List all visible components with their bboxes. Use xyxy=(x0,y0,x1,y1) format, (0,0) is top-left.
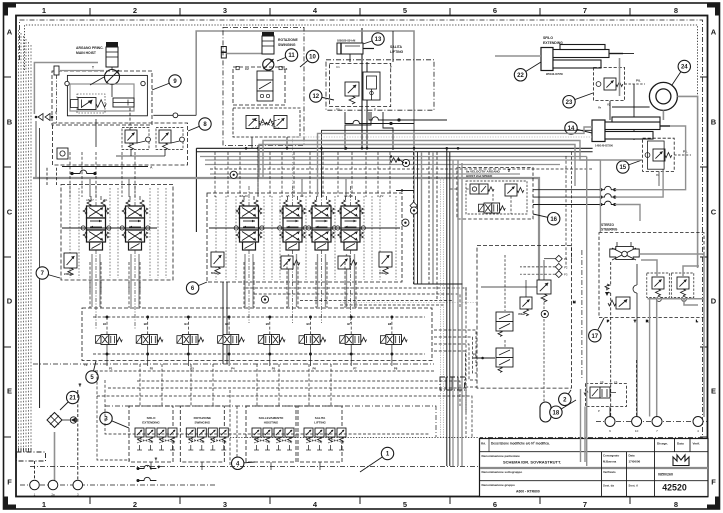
steering gray loops xyxy=(639,254,704,417)
lifting feed wires xyxy=(345,31,393,150)
bank 6 spool 1 xyxy=(234,196,264,250)
steering relief ports xyxy=(657,297,687,302)
svg-text:5: 5 xyxy=(403,6,407,15)
callout 11 xyxy=(277,49,298,61)
callout 24 xyxy=(672,60,691,85)
callout 16 xyxy=(533,213,560,225)
svg-text:P2: P2 xyxy=(564,265,568,269)
svg-text:A5: A5 xyxy=(286,194,290,198)
pilot row bottom bus xyxy=(93,345,425,367)
svg-text:14: 14 xyxy=(568,126,575,132)
box bottom collectors xyxy=(151,457,320,470)
P-port labels row xyxy=(84,363,398,371)
bank 6 aux valve 2 xyxy=(281,256,300,269)
column numbers bottom xyxy=(42,500,678,509)
return filter 21 xyxy=(47,413,62,428)
svg-text:HOIST 2nd SPEED: HOIST 2nd SPEED xyxy=(466,174,493,178)
lifting outlet hop line 1 xyxy=(345,112,414,125)
svg-text:B2: B2 xyxy=(144,322,148,326)
remote control box SOLLEVAMENTO xyxy=(246,406,296,462)
svg-text:SCHEMA IDR. SOVRASTRUTT.: SCHEMA IDR. SOVRASTRUTT. xyxy=(503,460,561,465)
svg-text:SWINGING: SWINGING xyxy=(278,43,296,47)
svg-text:SALITA: SALITA xyxy=(390,45,403,49)
bank 7 gray drops xyxy=(92,254,139,307)
unloader valve 18 boundary xyxy=(585,384,626,407)
return drops to tank manifold xyxy=(19,448,32,452)
svg-text:P3: P3 xyxy=(564,273,568,277)
callout 5 xyxy=(86,361,98,383)
corner trim mark top-right xyxy=(707,4,719,16)
pilot staircase bus 3 xyxy=(97,396,472,437)
svg-text:Verif.: Verif. xyxy=(693,442,701,446)
svg-text:22: 22 xyxy=(517,73,524,79)
bank 6 spool 4 xyxy=(336,196,366,250)
svg-text:18: 18 xyxy=(553,410,560,416)
steering relief left subframe xyxy=(647,273,670,298)
svg-text:C2: C2 xyxy=(245,67,249,71)
svg-text:B4: B4 xyxy=(225,322,229,326)
telescopic gray feed xyxy=(495,56,698,268)
lifting outlet hop line 2 xyxy=(369,112,447,121)
pilot return dashed bus xyxy=(95,370,434,372)
svg-text:P: P xyxy=(607,319,609,323)
svg-text:P4: P4 xyxy=(231,367,235,371)
svg-text:Sost. il: Sost. il xyxy=(629,484,638,488)
svg-text:P5: P5 xyxy=(272,367,276,371)
callout 1 xyxy=(360,447,394,472)
callout 13 xyxy=(363,33,384,45)
steering shock valve xyxy=(608,297,630,309)
svg-text:8: 8 xyxy=(674,500,678,509)
inter-box return drops xyxy=(230,390,237,466)
gray supply header top xyxy=(196,31,414,284)
port riser lines xyxy=(610,360,637,417)
svg-text:Rif.: Rif. xyxy=(481,442,486,446)
swing overcenter valve left xyxy=(246,116,266,129)
2nd speed solenoid valve xyxy=(479,203,506,213)
svg-text:A: A xyxy=(711,28,717,37)
title block texts xyxy=(481,442,700,494)
svg-text:45bar: 45bar xyxy=(518,312,525,316)
svg-text:2: 2 xyxy=(133,6,137,15)
svg-text:C: C xyxy=(711,208,717,217)
svg-text:B: B xyxy=(711,118,717,127)
svg-text:23: 23 xyxy=(566,100,573,106)
swing group outer boundary xyxy=(223,27,304,145)
pilot lines bus-to-banks xyxy=(70,152,390,197)
pilot solenoid valve 6 xyxy=(299,335,326,345)
swing group boundary xyxy=(233,67,285,105)
corner trim mark bottom-right xyxy=(707,497,719,509)
svg-text:17: 17 xyxy=(591,334,598,340)
telescopic cylinder 22 xyxy=(541,45,623,71)
manufacturer logo xyxy=(673,455,689,466)
luffing cylinder 14 xyxy=(592,117,670,142)
svg-text:42520: 42520 xyxy=(662,483,687,493)
steering ports lines xyxy=(607,262,698,418)
svg-text:V: V xyxy=(374,107,376,111)
svg-text:7: 7 xyxy=(583,500,587,509)
main pressure bus P (double line) xyxy=(196,148,592,232)
port gauge left xyxy=(65,81,69,85)
callout 23 xyxy=(563,93,593,108)
valve 23 drop line xyxy=(610,84,634,140)
svg-text:ROTAZIONE: ROTAZIONE xyxy=(194,416,211,420)
hose gray extensions xyxy=(615,126,686,221)
steering inlet check xyxy=(605,284,609,296)
svg-text:140/140-D7200: 140/140-D7200 xyxy=(595,144,613,148)
svg-text:P1: P1 xyxy=(564,257,568,261)
relief valve 8b subframe xyxy=(156,128,183,150)
B-port labels row xyxy=(103,322,392,326)
svg-text:T: T xyxy=(92,66,94,70)
column numbers top xyxy=(42,6,678,15)
steering label xyxy=(601,223,618,232)
group 2 internal wires xyxy=(481,255,576,402)
svg-text:Descrizione modifiche e/o N° m: Descrizione modifiche e/o N° modifica. xyxy=(491,442,550,446)
bank 7 spool 1 xyxy=(81,196,111,250)
svg-text:Denominazione sottogruppo: Denominazione sottogruppo xyxy=(482,470,523,474)
quick coupler qa xyxy=(402,159,409,166)
svg-text:B7: B7 xyxy=(347,322,351,326)
valve bank 7 boundary xyxy=(61,185,173,281)
hose hops left xyxy=(71,170,96,175)
gray drops into banks xyxy=(90,178,346,197)
svg-text:EXTENDING: EXTENDING xyxy=(142,421,160,425)
bank 7 internal verticals xyxy=(70,188,166,278)
bank 6 spool centrelines xyxy=(249,186,351,323)
svg-text:SOLLEVAMENTO: SOLLEVAMENTO xyxy=(259,416,284,420)
svg-text:Disegn.: Disegn. xyxy=(657,442,668,446)
svg-text:020/020-034+M: 020/020-034+M xyxy=(337,39,355,43)
svg-text:LS: LS xyxy=(614,380,618,384)
bank 6 spool 2 xyxy=(278,196,308,250)
callout 10 xyxy=(300,50,319,67)
inlet check pair xyxy=(35,111,57,121)
svg-text:A600 - RTR600: A600 - RTR600 xyxy=(516,490,540,494)
group 8 internal links xyxy=(116,141,180,156)
pressure switch spring xyxy=(390,158,404,163)
svg-text:230bar: 230bar xyxy=(64,272,72,276)
hose hops bottom xyxy=(137,465,157,481)
system boundary dash-dot rectangle xyxy=(20,20,703,438)
long pilot dashed bus bottom xyxy=(30,372,480,467)
hoist motor wires xyxy=(90,67,130,147)
callout 18 xyxy=(550,400,576,418)
svg-text:21: 21 xyxy=(69,396,76,402)
svg-text:B5: B5 xyxy=(266,322,270,326)
valve bank 6 boundary xyxy=(207,193,402,282)
gauge connection box xyxy=(57,148,68,159)
extension label xyxy=(543,36,563,45)
remote control box SFILO xyxy=(129,406,177,462)
swing brake cylinder xyxy=(262,32,274,54)
swing overcenter valve right xyxy=(267,116,287,129)
svg-text:P6: P6 xyxy=(313,367,317,371)
relief valve 8b xyxy=(159,130,171,150)
svg-text:E: E xyxy=(711,387,716,396)
trunk collector line xyxy=(414,284,466,437)
svg-text:Verificato: Verificato xyxy=(603,470,616,474)
svg-text:11: 11 xyxy=(288,53,295,59)
main hoist gray subplate xyxy=(70,84,134,111)
svg-text:3: 3 xyxy=(223,500,227,509)
steering group boundary xyxy=(599,233,704,318)
svg-text:D: D xyxy=(711,297,717,306)
svg-text:B: B xyxy=(7,118,13,127)
swing lines down xyxy=(252,137,287,196)
svg-text:F: F xyxy=(711,478,716,487)
svg-text:HOISTING: HOISTING xyxy=(264,421,279,425)
gray return continuation xyxy=(35,121,37,178)
bank 6 carryover line xyxy=(209,227,400,229)
box feed drops xyxy=(140,364,331,406)
pilot solenoid valve 7 xyxy=(340,335,367,345)
bank 7 bottom ports xyxy=(90,262,140,292)
svg-text:24: 24 xyxy=(681,65,688,71)
svg-text:3: 3 xyxy=(223,6,227,15)
pilot solenoid valve 1 xyxy=(96,335,123,345)
bus junction nodes xyxy=(245,147,460,161)
callout 9 xyxy=(152,75,181,90)
title block xyxy=(480,439,709,497)
svg-text:Denominazione gruppo: Denominazione gruppo xyxy=(482,483,516,487)
relief valve 8a xyxy=(125,130,137,150)
svg-text:B3: B3 xyxy=(184,322,188,326)
feeds from bank 6 to lower boxes xyxy=(223,282,227,364)
svg-text:C1: C1 xyxy=(336,107,340,111)
filter wires xyxy=(35,280,82,480)
svg-text:6: 6 xyxy=(493,500,497,509)
svg-text:T: T xyxy=(155,457,157,461)
luffing pilot dotted xyxy=(293,137,593,197)
swing motor label xyxy=(278,38,298,47)
main hoist manifold block xyxy=(67,75,147,115)
pilot row top bus xyxy=(93,316,425,334)
bank 6 gray drops xyxy=(245,254,355,307)
svg-text:B8: B8 xyxy=(388,322,392,326)
svg-text:ARGANO PRINC.: ARGANO PRINC. xyxy=(76,46,104,50)
P1-P3 riser dashes xyxy=(566,152,572,267)
quick coupler qd xyxy=(541,310,548,317)
swing overcenter boundary xyxy=(233,108,300,137)
svg-text:F: F xyxy=(7,478,12,487)
P2 link line xyxy=(396,189,414,191)
pilot solenoid valve 4 xyxy=(218,335,245,345)
svg-text:Sost. da: Sost. da xyxy=(603,484,614,488)
steering orbitrol xyxy=(610,242,639,260)
counterbalance valve main hoist xyxy=(71,98,107,110)
bank 6 aux valve 4 xyxy=(338,256,357,269)
svg-text:E: E xyxy=(7,387,12,396)
bank 6 port labels xyxy=(240,194,384,198)
svg-text:70bar: 70bar xyxy=(379,271,386,275)
svg-text:ROTAZIONE: ROTAZIONE xyxy=(278,38,298,42)
svg-text:P: P xyxy=(55,111,57,115)
shuttle drain dash xyxy=(56,75,58,124)
svg-text:Consegnato: Consegnato xyxy=(603,454,619,458)
svg-text:STEERING: STEERING xyxy=(601,228,618,232)
quick coupler 20 xyxy=(261,296,268,303)
svg-text:C: C xyxy=(7,208,13,217)
header port circle xyxy=(153,113,196,118)
callout 15 xyxy=(617,160,642,173)
lifting counterbalance xyxy=(345,82,359,104)
svg-text:T: T xyxy=(634,319,636,323)
bank 7 relief valve xyxy=(64,253,77,276)
main gray trunk xyxy=(33,178,539,281)
svg-text:P2: P2 xyxy=(380,194,384,198)
pilot line 15 xyxy=(674,150,691,156)
swing motor xyxy=(263,59,274,70)
svg-text:15: 15 xyxy=(619,165,626,171)
bank 6 relief valve left xyxy=(211,252,224,275)
callout 12 xyxy=(310,90,334,102)
relief valve pair group 8 boundary xyxy=(53,123,188,165)
luffing feed A2 xyxy=(322,130,593,197)
circle 24 link xyxy=(598,106,650,110)
hoist 2nd speed label xyxy=(466,170,501,179)
callout 6 xyxy=(186,282,207,294)
staircase links above row xyxy=(245,288,476,308)
steering relief right subframe xyxy=(671,273,694,298)
remote control box ROTAZIONE xyxy=(180,406,228,462)
tank manifold bottom-left xyxy=(17,452,46,461)
G2/steering separator xyxy=(581,250,583,378)
svg-text:2a: 2a xyxy=(51,493,55,497)
tank ports bottom left xyxy=(20,480,215,496)
P8 feed line xyxy=(473,353,495,360)
group 2 check diamonds xyxy=(555,255,567,277)
pilot solenoid valve 2 xyxy=(136,335,163,345)
bypass check 21 xyxy=(62,417,77,423)
extend feed lines xyxy=(259,141,659,187)
valve 15 inner loop xyxy=(648,141,665,169)
svg-text:W0190-O7050: W0190-O7050 xyxy=(546,72,563,76)
svg-text:B6: B6 xyxy=(307,322,311,326)
svg-text:T: T xyxy=(508,169,510,173)
callout 14 xyxy=(565,122,592,134)
left return drops to bank 7 xyxy=(40,128,57,408)
svg-text:P1: P1 xyxy=(109,367,113,371)
bank 7 spool 2 xyxy=(120,196,150,250)
pilot staircase bus 1 xyxy=(137,381,460,406)
quick coupler qc xyxy=(402,219,409,226)
holding valve 23 boundary xyxy=(594,68,625,101)
swing valve stack xyxy=(236,67,288,102)
quick coupler qb xyxy=(410,207,417,214)
svg-text:MAIN HOIST: MAIN HOIST xyxy=(76,51,97,55)
lifting cylinder xyxy=(337,43,374,54)
svg-text:SFILO: SFILO xyxy=(147,416,156,420)
luffing feed B2 xyxy=(318,127,593,197)
row letters left xyxy=(7,28,13,487)
slew ring 24 xyxy=(649,82,677,110)
svg-text:13: 13 xyxy=(375,37,382,43)
trunk check diamond xyxy=(410,202,417,209)
steering hose hops xyxy=(533,186,616,205)
steering relief right xyxy=(677,277,689,296)
gray return header xyxy=(34,63,98,115)
svg-text:SWINGING: SWINGING xyxy=(195,421,211,425)
main hoist hydraulic motor xyxy=(105,70,120,85)
holding valve 15 boundary xyxy=(643,138,675,171)
callout 22 xyxy=(514,62,541,81)
hoist 2nd speed boundary xyxy=(457,168,533,220)
pilot solenoid row boundary xyxy=(82,308,432,361)
holding valve 15 xyxy=(645,149,672,177)
supply/return trunk bundle right of bank xyxy=(414,148,463,466)
bank 7 port labels xyxy=(86,198,108,202)
callout 17 xyxy=(589,318,604,342)
svg-text:10: 10 xyxy=(635,429,639,433)
group 2 pilot valve lower xyxy=(496,348,513,372)
hoist 2nd speed inner frame xyxy=(466,181,527,214)
callout 4 xyxy=(232,457,256,469)
holding valve 23 xyxy=(596,78,623,107)
2nd speed relief xyxy=(505,184,524,196)
svg-text:T1: T1 xyxy=(84,363,88,367)
svg-text:Denominazione particolare: Denominazione particolare xyxy=(482,454,521,458)
svg-text:1: 1 xyxy=(42,6,46,15)
swing cross pilots xyxy=(252,119,280,129)
2nd speed selector valve xyxy=(470,184,494,194)
svg-text:L: L xyxy=(696,319,698,323)
svg-text:P: P xyxy=(598,409,600,413)
lifting valve group 12 boundary xyxy=(330,63,391,106)
pilot feed bus xyxy=(33,363,434,365)
svg-text:P8: P8 xyxy=(394,367,398,371)
lifting label xyxy=(390,45,404,54)
svg-text:B1: B1 xyxy=(103,322,107,326)
svg-text:16: 16 xyxy=(550,217,557,223)
svg-text:SFILO: SFILO xyxy=(543,36,553,40)
callout 21 xyxy=(60,391,79,410)
svg-text:2: 2 xyxy=(133,500,137,509)
lifting group outer boundary xyxy=(326,60,434,110)
bank 6 internal verticals xyxy=(216,196,396,280)
svg-text:P: P xyxy=(158,465,160,469)
bank 6 bottom ports xyxy=(244,262,356,282)
svg-text:8a VELOCITA' ARGANO: 8a VELOCITA' ARGANO xyxy=(466,170,501,174)
pilot staircase bus 2 xyxy=(108,388,466,412)
corner trim mark top-left xyxy=(4,4,16,16)
group 2 pilot valve upper xyxy=(496,312,513,336)
main hoist winch group xyxy=(76,42,118,67)
bank 6 relief valve right xyxy=(379,252,392,275)
svg-text:7: 7 xyxy=(583,6,587,15)
pump feed risers xyxy=(362,28,367,148)
pilot cylinder main hoist xyxy=(113,98,134,107)
unloader valve 18 xyxy=(584,380,618,413)
lifting cartridge xyxy=(363,72,380,100)
bulkhead fitting swing xyxy=(221,47,262,59)
remote control box SALITA xyxy=(298,406,346,462)
svg-text:SALITA: SALITA xyxy=(315,416,326,420)
svg-text:LIFTING: LIFTING xyxy=(314,421,326,425)
counterbalance subframe xyxy=(77,94,105,113)
svg-text:M.Bavona: M.Bavona xyxy=(603,460,617,464)
pump control group 2 boundary xyxy=(477,246,572,389)
svg-text:6: 6 xyxy=(493,6,497,15)
callout 3 xyxy=(100,412,129,428)
inner dotted boundary xyxy=(25,25,698,120)
return manifold right xyxy=(440,377,465,390)
svg-text:12: 12 xyxy=(312,94,319,100)
pilot solenoid valve 8 xyxy=(380,335,407,345)
steering gray feeders xyxy=(587,157,601,467)
tank return line bundle left xyxy=(19,30,32,452)
